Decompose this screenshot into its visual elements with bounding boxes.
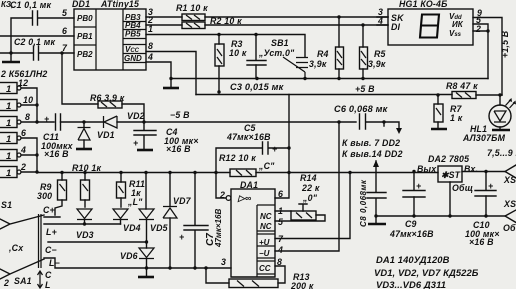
svg-text:DI: DI	[391, 22, 401, 32]
svg-text:6: 6	[278, 189, 283, 199]
svg-text:×16 В: ×16 В	[166, 144, 191, 154]
svg-text:„0": „0"	[302, 193, 318, 203]
svg-text:АЛ307БМ: АЛ307БМ	[462, 133, 506, 143]
svg-text:HG1 КО-4Б: HG1 КО-4Б	[399, 0, 448, 9]
svg-text:ATtiny15: ATtiny15	[100, 0, 139, 9]
svg-text:1: 1	[6, 133, 11, 144]
svg-text:6: 6	[62, 26, 67, 36]
svg-text:1: 1	[6, 167, 11, 178]
svg-text:47мк×16В: 47мк×16В	[214, 209, 223, 248]
svg-text:DD1: DD1	[72, 0, 90, 9]
svg-text:1: 1	[6, 150, 11, 161]
svg-text:−U: −U	[259, 249, 270, 258]
svg-text:+: +	[179, 232, 184, 242]
svg-text:+U: +U	[259, 238, 270, 247]
svg-text:10: 10	[23, 95, 33, 105]
svg-text:+: +	[272, 144, 277, 154]
svg-text:VD4: VD4	[123, 223, 141, 233]
svg-text:PB1: PB1	[77, 32, 93, 41]
svg-text:2: 2	[219, 190, 225, 200]
svg-text:R2 10 к: R2 10 к	[210, 16, 242, 26]
svg-text:PB2: PB2	[77, 50, 93, 59]
svg-text:4: 4	[377, 16, 383, 26]
svg-text:+: +	[44, 114, 49, 124]
svg-text:4: 4	[277, 245, 283, 255]
svg-text:Общ: Общ	[452, 183, 473, 193]
svg-text:L: L	[45, 280, 51, 289]
svg-text:R6 3,9 к: R6 3,9 к	[90, 93, 125, 103]
svg-text:S1: S1	[1, 200, 12, 210]
svg-text:22 к: 22 к	[301, 183, 320, 193]
svg-text:47мк×16В: 47мк×16В	[226, 132, 271, 142]
svg-text:VD5: VD5	[150, 223, 168, 233]
svg-text:10 к: 10 к	[229, 48, 247, 58]
svg-text:L+: L+	[46, 227, 57, 237]
svg-text:+: +	[133, 138, 138, 148]
svg-text:VD7: VD7	[173, 196, 192, 206]
svg-text:R8 47 к: R8 47 к	[446, 81, 478, 91]
svg-text:+: +	[488, 181, 493, 191]
svg-text:С−: С−	[45, 245, 57, 255]
svg-text:С: С	[45, 270, 52, 280]
svg-text:1: 1	[148, 24, 153, 34]
svg-text:VD1, VD2, VD7 КД522Б: VD1, VD2, VD7 КД522Б	[374, 267, 479, 278]
svg-text:+: +	[416, 181, 421, 191]
svg-text:R1 10 к: R1 10 к	[176, 3, 208, 13]
svg-text:47мк×16В: 47мк×16В	[389, 229, 434, 239]
svg-text:„L": „L"	[127, 197, 143, 207]
svg-text:4: 4	[20, 145, 26, 155]
svg-text:+5 В: +5 В	[355, 84, 375, 94]
svg-text:XS: XS	[503, 199, 516, 209]
svg-text:SA1: SA1	[14, 276, 32, 286]
svg-text:✱ST: ✱ST	[441, 170, 461, 180]
svg-text:VD2: VD2	[127, 111, 145, 121]
svg-text:„С": „С"	[258, 161, 275, 171]
svg-text:R5: R5	[374, 49, 386, 59]
svg-text:ИК: ИК	[452, 20, 464, 29]
svg-text:−5 В: −5 В	[170, 110, 190, 120]
svg-text:SB1: SB1	[271, 38, 289, 48]
svg-text:8: 8	[25, 112, 30, 122]
svg-text:„Уст.0": „Уст.0"	[258, 48, 295, 58]
svg-text:К выв.14 DD2: К выв.14 DD2	[342, 149, 403, 159]
svg-text:▷∞: ▷∞	[237, 193, 251, 203]
svg-text:12: 12	[18, 78, 28, 88]
svg-text:К выв. 7 DD2: К выв. 7 DD2	[342, 138, 400, 148]
svg-text:NC: NC	[260, 212, 272, 221]
svg-text:+1,5 В: +1,5 В	[500, 30, 510, 58]
svg-text:1: 1	[278, 206, 283, 216]
svg-text:VD3: VD3	[76, 230, 94, 240]
svg-text:PB5: PB5	[125, 30, 141, 39]
svg-text:VD6: VD6	[120, 251, 138, 261]
svg-text:Вх.: Вх.	[464, 164, 478, 174]
svg-text:R12 10 к: R12 10 к	[219, 153, 256, 163]
svg-text:300: 300	[37, 191, 52, 201]
svg-text:×16 В: ×16 В	[469, 237, 494, 247]
svg-text:5: 5	[278, 217, 283, 227]
svg-text:1: 1	[6, 117, 11, 128]
svg-text:Вых: Вых	[417, 164, 437, 174]
svg-text:С8 0,068мк: С8 0,068мк	[359, 179, 368, 227]
svg-text:С+: С+	[43, 205, 55, 215]
svg-text:VD1: VD1	[97, 130, 115, 140]
svg-text:7,5...9 В: 7,5...9 В	[487, 148, 516, 158]
svg-text:2: 2	[475, 24, 481, 34]
svg-text:3: 3	[221, 257, 226, 267]
svg-text:R10 1к: R10 1к	[72, 163, 101, 173]
svg-text:2: 2	[3, 278, 9, 288]
svg-text:R4: R4	[317, 49, 329, 59]
svg-text:С9: С9	[405, 219, 417, 229]
svg-text:×16 В: ×16 В	[44, 149, 69, 159]
svg-text:8: 8	[148, 41, 153, 51]
svg-text:XS: XS	[503, 175, 516, 185]
svg-text:С1 0,1 мк: С1 0,1 мк	[10, 0, 51, 10]
svg-text:DA1 140УД120В: DA1 140УД120В	[376, 254, 450, 265]
svg-text:,Сх: ,Сх	[8, 243, 24, 253]
svg-text:С3 0,015 мк: С3 0,015 мк	[230, 82, 285, 92]
svg-text:5: 5	[62, 8, 67, 18]
svg-text:1: 1	[6, 83, 11, 94]
svg-text:GND: GND	[124, 54, 142, 63]
svg-text:VD3...VD6 Д311: VD3...VD6 Д311	[376, 279, 446, 289]
svg-text:2: 2	[20, 162, 26, 172]
svg-text:3,9к: 3,9к	[309, 59, 327, 69]
svg-text:L−: L−	[49, 258, 60, 268]
svg-text:1: 1	[6, 100, 11, 111]
svg-text:3,9к: 3,9к	[368, 59, 386, 69]
svg-text:R14: R14	[300, 173, 317, 183]
svg-text:8: 8	[277, 257, 282, 267]
svg-text:PB0: PB0	[77, 14, 93, 23]
svg-text:С2 0,1 мк: С2 0,1 мк	[14, 37, 55, 47]
svg-text:NC: NC	[260, 222, 272, 231]
svg-text:СС: СС	[259, 264, 271, 273]
svg-text:С6 0,068 мк: С6 0,068 мк	[334, 104, 389, 114]
svg-text:200 к: 200 к	[290, 281, 314, 289]
svg-text:DA1: DA1	[240, 180, 258, 190]
svg-text:Общ: Общ	[503, 223, 516, 233]
svg-text:6: 6	[21, 128, 26, 138]
svg-text:4: 4	[147, 52, 153, 62]
svg-text:DA2 7805: DA2 7805	[428, 154, 469, 164]
svg-text:1 к: 1 к	[450, 113, 463, 123]
